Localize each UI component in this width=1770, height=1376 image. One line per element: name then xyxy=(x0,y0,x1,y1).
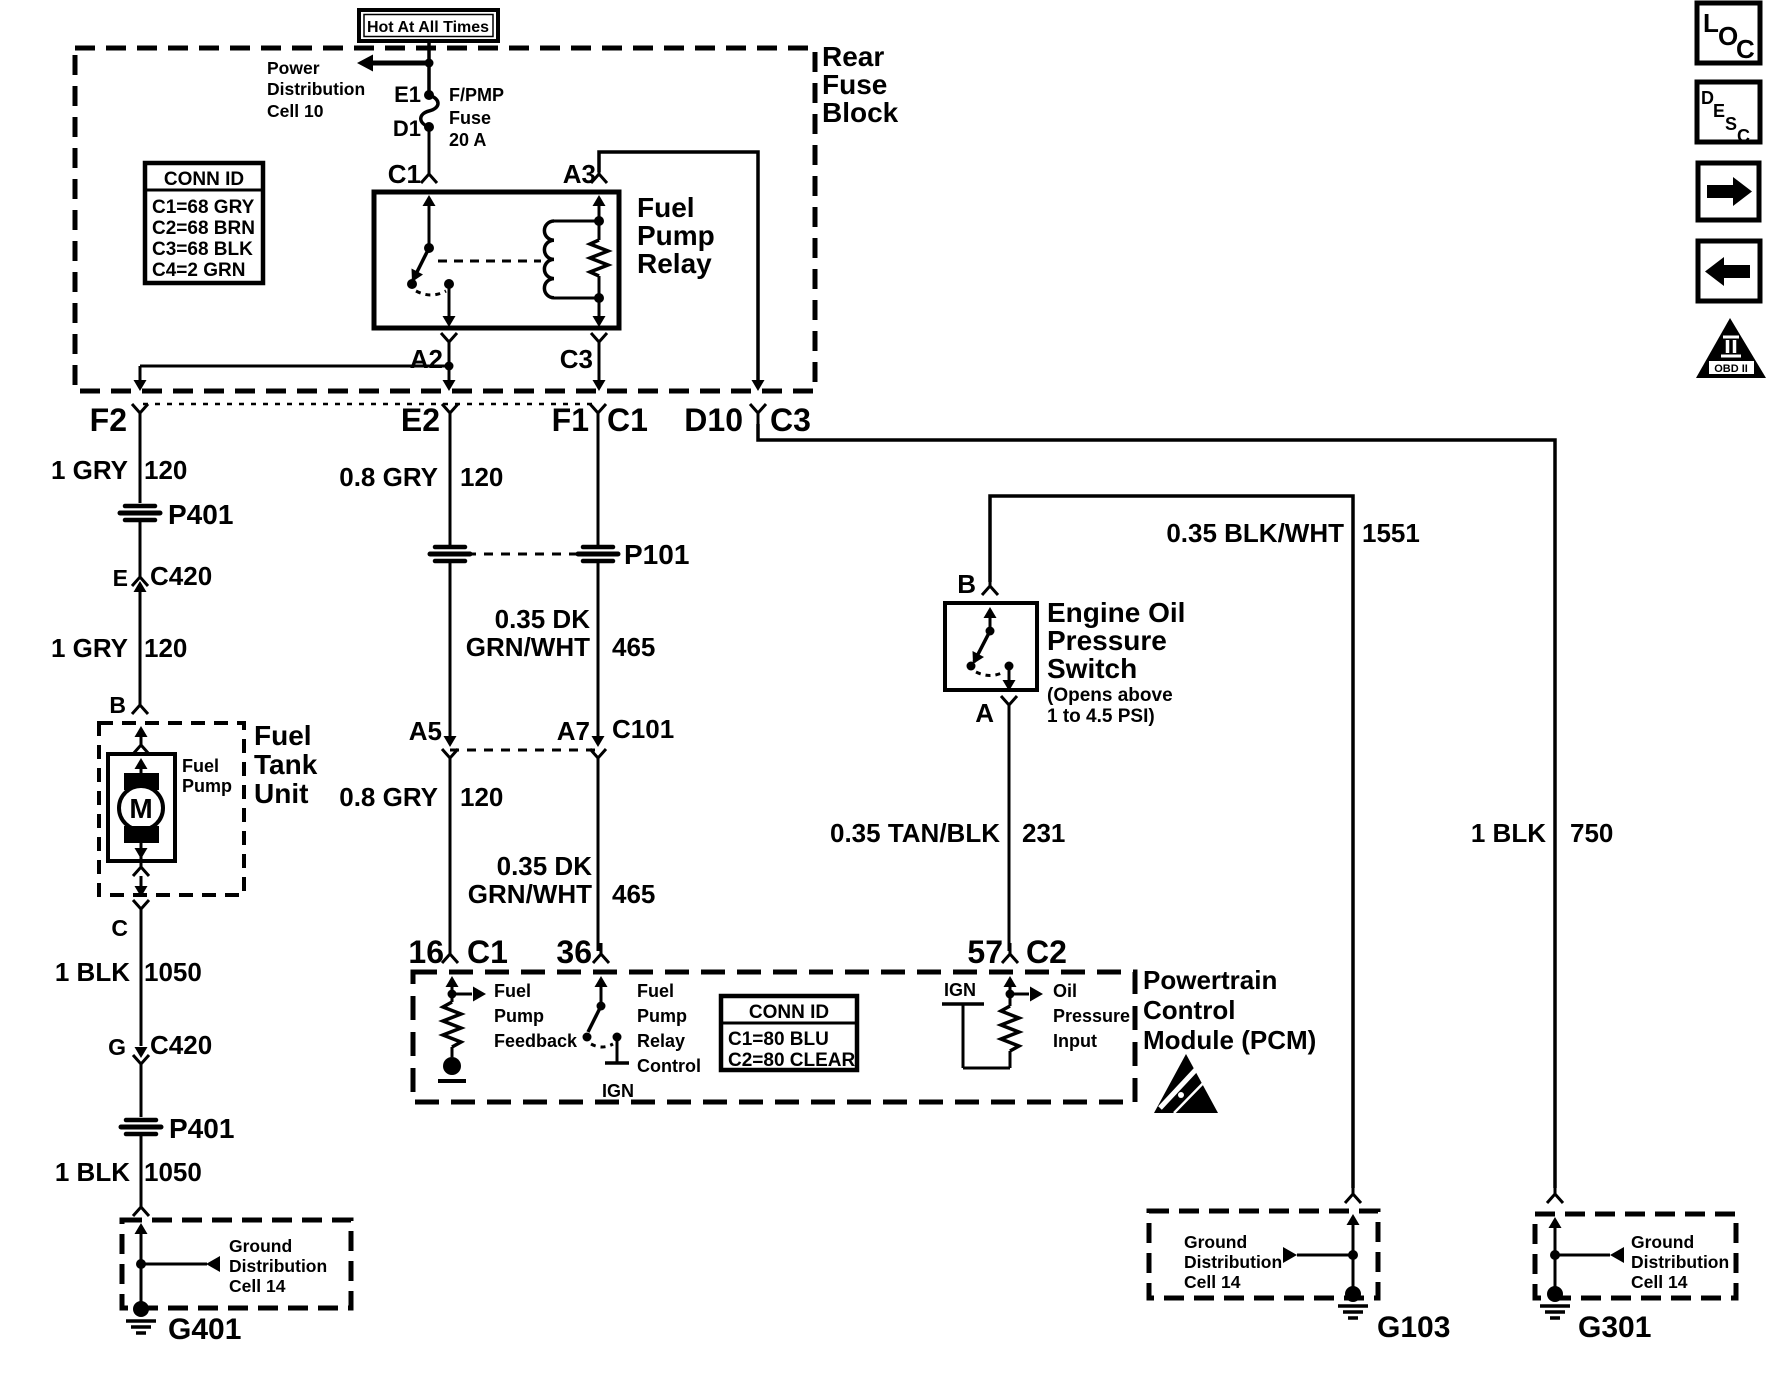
connector C101 pins A5 A7 xyxy=(442,736,606,769)
svg-text:465: 465 xyxy=(612,632,655,662)
legend icon back arrow xyxy=(1698,241,1760,301)
svg-text:231: 231 xyxy=(1022,818,1065,848)
Fuel Tank Unit enclosure (dashed) xyxy=(99,723,244,895)
svg-text:C: C xyxy=(1737,126,1750,146)
svg-text:C101: C101 xyxy=(612,714,674,744)
svg-text:Distribution: Distribution xyxy=(1631,1252,1729,1272)
svg-text:B: B xyxy=(109,692,126,718)
wire E2 down (0.8 GRY 120) xyxy=(449,424,452,546)
svg-text:D1: D1 xyxy=(393,116,421,141)
connector socket A2 xyxy=(441,333,457,353)
svg-text:0.8 GRY: 0.8 GRY xyxy=(339,782,438,812)
svg-text:Pressure: Pressure xyxy=(1053,1006,1130,1026)
svg-text:M: M xyxy=(129,793,152,824)
fuel pump motor M xyxy=(119,758,163,859)
svg-text:0.35 TAN/BLK: 0.35 TAN/BLK xyxy=(830,818,1000,848)
svg-text:20 A: 20 A xyxy=(449,130,486,150)
svg-text:IGN: IGN xyxy=(602,1081,634,1101)
svg-text:16: 16 xyxy=(408,934,444,970)
svg-text:Powertrain: Powertrain xyxy=(1143,965,1277,995)
relay switch (30/87) xyxy=(407,195,456,327)
wire C420 to fuel tank (1 GRY 120) xyxy=(139,592,142,701)
wire A5 to PCM 16 (0.8 GRY 120) xyxy=(449,769,452,951)
Power Distribution Cell 10 arrow xyxy=(357,55,434,72)
PCM fuel pump feedback input xyxy=(438,976,486,1081)
svg-text:Rear: Rear xyxy=(822,41,884,72)
svg-text:0.8 GRY: 0.8 GRY xyxy=(339,462,438,492)
svg-text:Pump: Pump xyxy=(637,220,715,251)
fuel tank internal connector top xyxy=(133,726,149,754)
Ground Distribution Cell 14 box (G301) xyxy=(1535,1214,1736,1298)
svg-text:465: 465 xyxy=(612,879,655,909)
svg-text:Ground: Ground xyxy=(1184,1232,1247,1252)
connector socket B oil switch xyxy=(982,575,998,595)
svg-text:E: E xyxy=(1713,101,1725,121)
inline connector G / C420 xyxy=(133,1047,149,1075)
Engine Oil Pressure Switch box xyxy=(945,603,1037,690)
svg-text:C3=68 BLK: C3=68 BLK xyxy=(152,239,253,260)
svg-text:L: L xyxy=(1703,8,1719,38)
svg-text:Input: Input xyxy=(1053,1031,1097,1051)
svg-text:A5: A5 xyxy=(409,716,442,746)
ground G301 xyxy=(1540,1286,1570,1318)
svg-text:750: 750 xyxy=(1570,818,1613,848)
oil switch contacts xyxy=(967,607,1016,691)
svg-text:Engine Oil: Engine Oil xyxy=(1047,597,1185,628)
svg-text:C420: C420 xyxy=(150,1030,212,1060)
svg-text:Ground: Ground xyxy=(229,1236,292,1256)
connector socket at G401 xyxy=(133,1196,149,1216)
wire to C420 xyxy=(139,522,142,574)
svg-text:E: E xyxy=(113,565,128,591)
wire: fuse to relay pin C1 xyxy=(428,131,431,172)
connector socket B xyxy=(132,694,148,714)
svg-text:Cell 10: Cell 10 xyxy=(267,101,324,121)
wire A3 up over to D10 xyxy=(599,152,758,381)
connector row under fuse block (dotted) xyxy=(143,403,599,406)
svg-text:C1=80 BLU: C1=80 BLU xyxy=(728,1029,829,1050)
svg-text:C1: C1 xyxy=(467,934,508,970)
svg-text:1 BLK: 1 BLK xyxy=(55,957,130,987)
svg-text:Tank: Tank xyxy=(254,749,318,780)
svg-text:GRN/WHT: GRN/WHT xyxy=(466,632,590,662)
svg-text:A: A xyxy=(975,698,994,728)
svg-text:Fuel: Fuel xyxy=(637,981,674,1001)
svg-text:C: C xyxy=(111,915,128,941)
connector socket A3 xyxy=(591,163,607,183)
svg-text:Control: Control xyxy=(637,1056,701,1076)
svg-text:Block: Block xyxy=(822,97,899,128)
svg-text:Distribution: Distribution xyxy=(229,1256,327,1276)
Hot At All Times label box xyxy=(359,10,498,41)
svg-text:Power: Power xyxy=(267,58,320,78)
svg-text:Cell 14: Cell 14 xyxy=(229,1276,286,1296)
wire to P401 xyxy=(140,1065,143,1117)
svg-text:P401: P401 xyxy=(169,1113,234,1144)
svg-text:IGN: IGN xyxy=(944,980,976,1000)
svg-text:120: 120 xyxy=(144,633,187,663)
svg-text:Module (PCM): Module (PCM) xyxy=(1143,1025,1316,1055)
svg-text:S: S xyxy=(1725,114,1737,134)
svg-text:P401: P401 xyxy=(168,499,233,530)
svg-text:E1: E1 xyxy=(394,82,421,107)
wire C3 relay to F1 exit xyxy=(598,353,601,381)
svg-text:1 GRY: 1 GRY xyxy=(51,455,128,485)
svg-text:120: 120 xyxy=(144,455,187,485)
Ground Distribution Cell 14 box (G401) xyxy=(122,1220,351,1308)
Ground Distribution Cell 14 box (G103) xyxy=(1149,1211,1378,1298)
svg-text:Pump: Pump xyxy=(637,1006,687,1026)
wire F1 down xyxy=(597,424,600,546)
CONN ID table (fuse block) xyxy=(145,163,263,283)
svg-text:Pressure: Pressure xyxy=(1047,625,1167,656)
wire C down (1 BLK 1050) xyxy=(140,920,143,1046)
legend icon forward arrow xyxy=(1698,163,1759,220)
P101 pair link xyxy=(467,553,580,556)
svg-text:0.35 DK: 0.35 DK xyxy=(495,604,591,634)
legend icon DESC xyxy=(1697,82,1760,146)
wire F2 down (1 GRY 120) xyxy=(139,424,142,503)
svg-text:B: B xyxy=(957,569,976,599)
svg-text:Cell 14: Cell 14 xyxy=(1631,1272,1688,1292)
svg-text:1551: 1551 xyxy=(1362,518,1420,548)
fuel pump inner box xyxy=(108,754,175,861)
svg-text:Fuel: Fuel xyxy=(254,720,312,751)
wire P401 to G401 (1 BLK 1050) xyxy=(140,1136,143,1203)
svg-text:C1: C1 xyxy=(388,159,421,189)
svg-text:Fuel: Fuel xyxy=(182,756,219,776)
PCM oil pressure input xyxy=(942,976,1043,1068)
svg-text:Oil: Oil xyxy=(1053,981,1077,1001)
wire A2 splice to F2 xyxy=(134,353,456,391)
svg-text:OBD II: OBD II xyxy=(1714,363,1748,375)
relay coil xyxy=(544,221,599,298)
connector socket F1 xyxy=(590,404,606,424)
svg-text:Fuel: Fuel xyxy=(637,192,695,223)
wire: battery feed from Hot At All Times down to fuse xyxy=(427,41,431,93)
svg-text:F1: F1 xyxy=(552,402,589,438)
svg-text:C1=68 GRY: C1=68 GRY xyxy=(152,197,255,218)
inline connector P401 xyxy=(120,506,160,520)
svg-text:GRN/WHT: GRN/WHT xyxy=(468,879,592,909)
wire F1 to A7 xyxy=(597,563,600,737)
wire E2 to A5 xyxy=(449,563,452,737)
svg-text:Fuse: Fuse xyxy=(822,69,887,100)
legend icon OBD II triangle xyxy=(1696,318,1766,378)
inline connector P101 (right half) xyxy=(578,547,618,561)
svg-text:1 BLK: 1 BLK xyxy=(1471,818,1546,848)
svg-text:F2: F2 xyxy=(90,402,127,438)
legend icon LOC xyxy=(1697,3,1760,64)
connector socket F2 xyxy=(132,404,148,424)
svg-text:(Opens above: (Opens above xyxy=(1047,685,1173,706)
svg-text:36: 36 xyxy=(556,934,592,970)
svg-text:C3: C3 xyxy=(560,344,593,374)
svg-text:0.35 BLK/WHT: 0.35 BLK/WHT xyxy=(1166,518,1344,548)
connector socket C3 xyxy=(591,333,607,353)
svg-text:E2: E2 xyxy=(401,402,440,438)
Powertrain Control Module box (dashed) xyxy=(413,972,1135,1102)
relay box Fuel Pump Relay xyxy=(374,192,619,328)
svg-text:1050: 1050 xyxy=(144,1157,202,1187)
svg-text:Distribution: Distribution xyxy=(1184,1252,1282,1272)
svg-text:Fuse: Fuse xyxy=(449,108,491,128)
svg-text:C3: C3 xyxy=(770,402,811,438)
connector socket D10 xyxy=(750,404,766,424)
svg-text:57: 57 xyxy=(967,934,1003,970)
svg-text:D10: D10 xyxy=(684,402,743,438)
wire A to PCM 57 (0.35 TAN/BLK 231) xyxy=(1008,716,1011,951)
ground G401 xyxy=(126,1301,156,1333)
svg-text:P101: P101 xyxy=(624,539,689,570)
svg-text:Distribution: Distribution xyxy=(267,79,365,99)
svg-text:C420: C420 xyxy=(150,561,212,591)
svg-text:CONN ID: CONN ID xyxy=(749,1002,829,1023)
connector socket E2 xyxy=(442,404,458,424)
svg-text:Relay: Relay xyxy=(637,248,712,279)
inline connector P101 (left half) xyxy=(430,547,470,561)
wire A7 to PCM 36 (0.35 DK GRN/WHT 465) xyxy=(597,769,600,951)
svg-text:A3: A3 xyxy=(563,159,596,189)
connector socket C1 xyxy=(421,163,437,183)
Rear Fuse Block enclosure (dashed) xyxy=(75,48,815,391)
svg-text:G301: G301 xyxy=(1578,1311,1651,1344)
ESD sensitive symbol xyxy=(1154,1054,1218,1113)
svg-text:1 BLK: 1 BLK xyxy=(55,1157,130,1187)
svg-text:Fuel: Fuel xyxy=(494,981,531,1001)
svg-text:A2: A2 xyxy=(410,344,443,374)
svg-text:Ground: Ground xyxy=(1631,1232,1694,1252)
wire 0.35 BLK/WHT 1551 (oil switch B to G103) xyxy=(990,496,1353,1188)
svg-text:Feedback: Feedback xyxy=(494,1031,578,1051)
svg-text:Switch: Switch xyxy=(1047,653,1137,684)
svg-text:C2: C2 xyxy=(1026,934,1067,970)
relay resistor xyxy=(590,195,608,327)
svg-text:C2=68 BRN: C2=68 BRN xyxy=(152,218,255,239)
relay coil link (dashed) xyxy=(438,260,541,263)
svg-text:G103: G103 xyxy=(1377,1311,1450,1344)
PCM connector sockets xyxy=(442,943,458,963)
PCM fuel pump relay control driver xyxy=(583,976,630,1063)
svg-text:Control: Control xyxy=(1143,995,1235,1025)
inline connector P401 (lower) xyxy=(121,1120,161,1134)
svg-text:1 GRY: 1 GRY xyxy=(51,633,128,663)
ground G103 xyxy=(1338,1286,1368,1318)
svg-text:0.35 DK: 0.35 DK xyxy=(497,851,593,881)
svg-text:C1: C1 xyxy=(607,402,648,438)
svg-text:Pump: Pump xyxy=(494,1006,544,1026)
connector socket C xyxy=(133,900,149,920)
svg-text:Relay: Relay xyxy=(637,1031,685,1051)
fuel tank internal connector bottom xyxy=(133,856,149,897)
svg-text:Hot At All Times: Hot At All Times xyxy=(367,19,489,36)
CONN ID table (PCM) xyxy=(721,996,857,1071)
svg-text:G: G xyxy=(108,1034,126,1060)
fuse F/PMP 20 A xyxy=(421,90,438,132)
svg-text:F/PMP: F/PMP xyxy=(449,85,504,105)
svg-text:A7: A7 xyxy=(557,716,590,746)
wire D10/C3 to G301 (1 BLK 750) xyxy=(758,424,1555,1188)
svg-text:C4=2 GRN: C4=2 GRN xyxy=(152,260,245,281)
svg-text:C: C xyxy=(1736,34,1755,64)
svg-text:G401: G401 xyxy=(168,1313,241,1346)
svg-text:120: 120 xyxy=(460,782,503,812)
svg-text:Pump: Pump xyxy=(182,776,232,796)
svg-text:C2=80 CLEAR: C2=80 CLEAR xyxy=(728,1050,856,1071)
inline connector E / C420 xyxy=(132,566,148,612)
svg-text:Unit: Unit xyxy=(254,778,308,809)
svg-text:120: 120 xyxy=(460,462,503,492)
svg-text:Cell 14: Cell 14 xyxy=(1184,1272,1241,1292)
svg-text:1 to 4.5 PSI): 1 to 4.5 PSI) xyxy=(1047,706,1155,727)
svg-text:CONN ID: CONN ID xyxy=(164,169,244,190)
svg-text:1050: 1050 xyxy=(144,957,202,987)
